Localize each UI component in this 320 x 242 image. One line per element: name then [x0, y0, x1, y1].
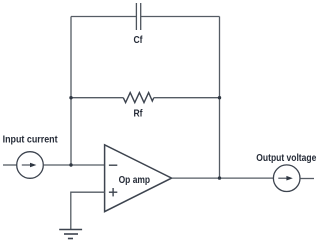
- capacitor Cf: [136, 3, 140, 30]
- node junction output (feedback joins output): [218, 176, 221, 179]
- op-amp plus sign: [109, 188, 117, 196]
- svg-text:Output voltage: Output voltage: [256, 153, 316, 164]
- svg-text:Cf: Cf: [134, 35, 143, 46]
- wire Rf branch left: [71, 97, 123, 99]
- wire top horizontal right of Cf: [141, 16, 220, 18]
- svg-text:Input current: Input current: [3, 135, 58, 146]
- voltage source V1 (output): [273, 165, 300, 192]
- wire output right stub: [300, 178, 314, 180]
- wire Rf branch right: [154, 97, 220, 99]
- wire left vertical (feedback loop left side): [70, 17, 72, 166]
- current source I1 (input): [17, 152, 44, 179]
- svg-text:Rf: Rf: [134, 109, 143, 120]
- resistor Rf: [123, 93, 154, 103]
- svg-text:Op amp: Op amp: [119, 175, 151, 186]
- node junction right (Rf to right wire): [218, 96, 221, 99]
- wire top horizontal left of Cf: [71, 16, 137, 18]
- op-amp U1: [105, 145, 172, 212]
- node junction left (wire to Rf): [69, 96, 72, 99]
- ground: [59, 230, 82, 239]
- node junction input (left wire joins input wire): [69, 163, 72, 166]
- wire non-inverting input branch: [71, 192, 105, 229]
- wire right vertical (feedback loop right side): [219, 17, 221, 179]
- wire input left stub: [3, 164, 17, 166]
- op-amp minus sign: [109, 164, 117, 166]
- wire input to op-amp inverting input: [44, 164, 105, 166]
- wire op-amp output: [172, 177, 274, 179]
